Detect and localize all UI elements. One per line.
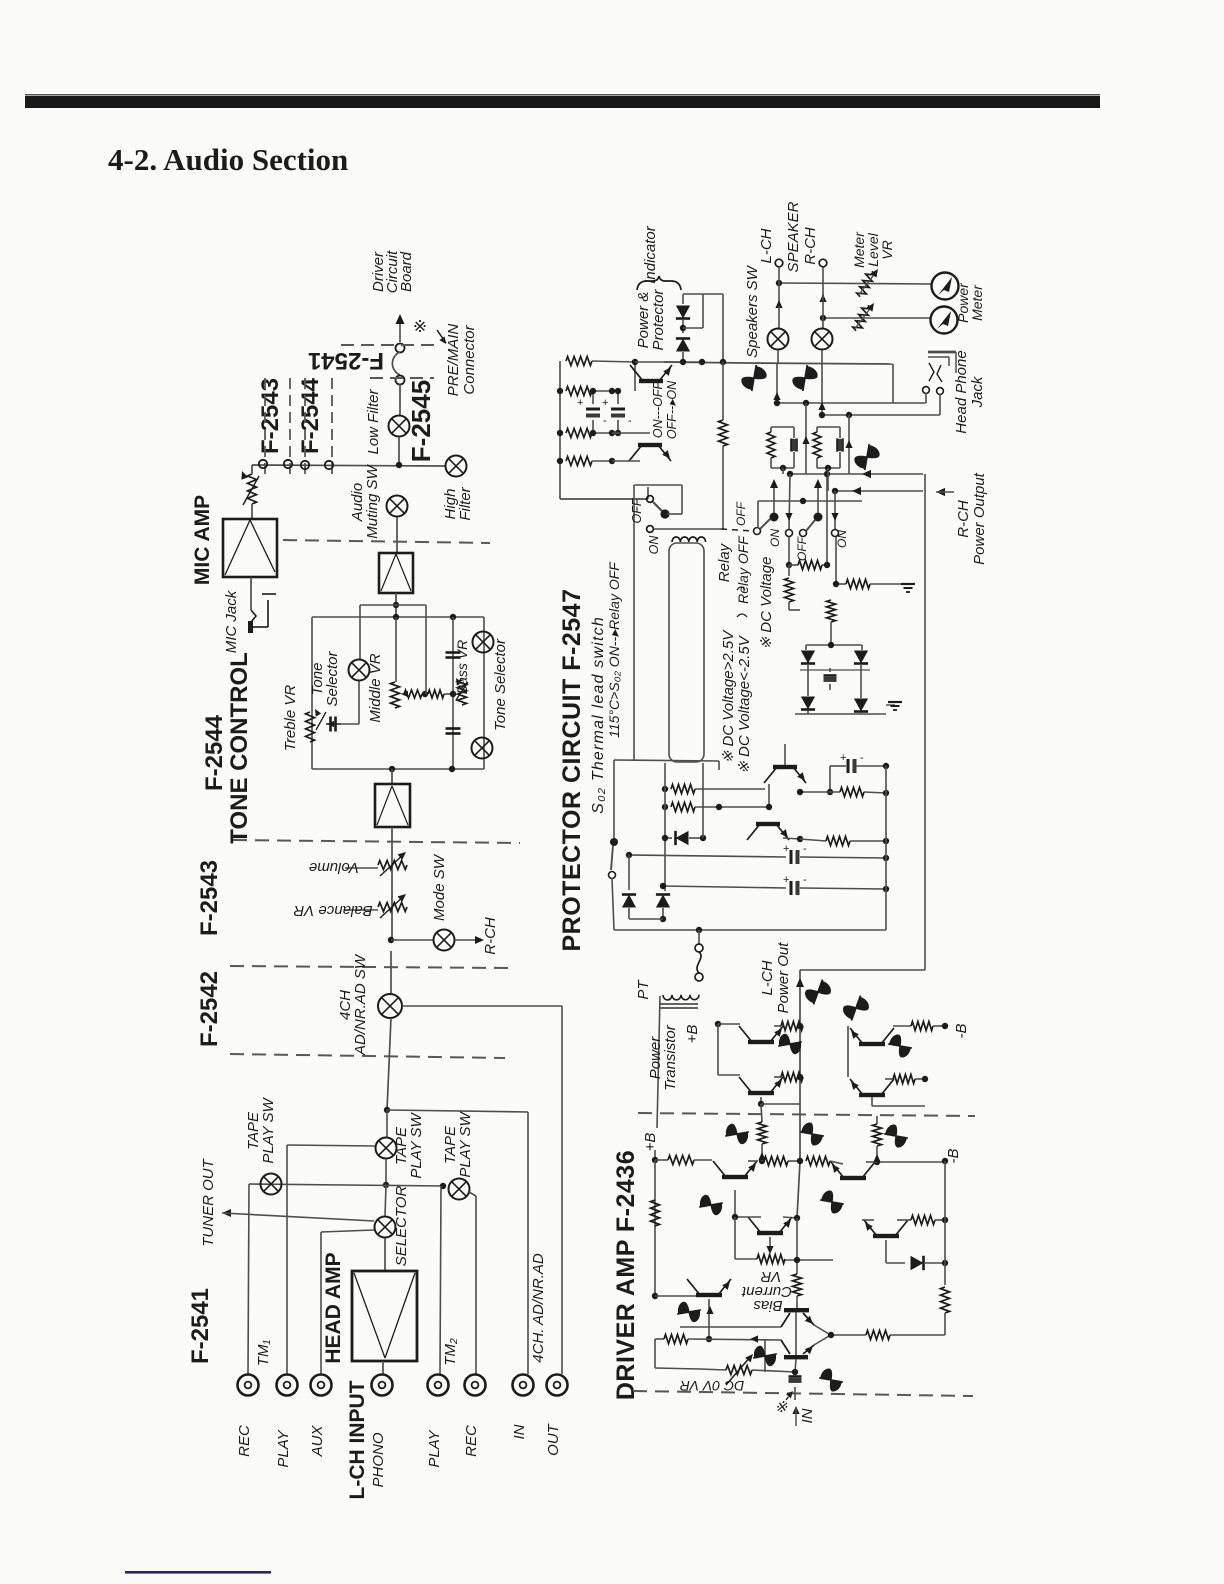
vert 877 resistor [873, 1116, 882, 1162]
wire mic amp to jack [250, 577, 252, 610]
label sw4 ON [835, 530, 849, 548]
svg-text:ON: ON [835, 530, 849, 548]
switch mode SW [434, 930, 455, 951]
input jack PHONO 4 [372, 1375, 393, 1396]
volume VR [378, 852, 407, 876]
power meter 1 [932, 273, 959, 300]
node mid chain [422, 691, 428, 697]
wire to PT [698, 930, 700, 944]
tone bottom rail [312, 768, 484, 770]
P1 emitter resistor [781, 1022, 803, 1031]
label jack IN [511, 1424, 528, 1439]
svg-text:Low Filter: Low Filter [365, 388, 382, 454]
fuse Q2b [882, 1123, 909, 1149]
label Mode SW [431, 853, 448, 921]
svg-text:MIC Jack: MIC Jack [223, 589, 240, 653]
mode SW arrow out [455, 936, 484, 944]
wire to mode SW [391, 939, 433, 941]
svg-text:PLAY SW: PLAY SW [408, 1112, 425, 1179]
protector rail 886 [660, 874, 889, 895]
fuse Q2 [798, 1121, 825, 1147]
R-CH top rail [924, 970, 926, 1079]
svg-text:OUT: OUT [545, 1422, 562, 1456]
page top rule bar [25, 94, 1100, 108]
label +B top [684, 1025, 701, 1044]
wire muting to block [396, 517, 398, 553]
wire sw1 up [757, 501, 759, 528]
svg-text:-: - [803, 843, 807, 855]
node tape top [384, 1107, 390, 1113]
svg-text:F-2541: F-2541 [308, 347, 384, 374]
svg-text:Filter: Filter [457, 486, 474, 520]
svg-text:REC: REC [236, 1425, 253, 1457]
wire PLAY drop [286, 1145, 288, 1374]
diode grid right top [854, 645, 868, 670]
fuse P1 [776, 1031, 803, 1057]
diode Q4 [886, 1240, 948, 1270]
diode grid rail top [806, 642, 862, 648]
svg-text:-: - [803, 874, 807, 886]
label Power Meter [955, 282, 985, 323]
label sw1 OFF [734, 501, 748, 526]
label R-CH [802, 227, 819, 265]
svg-text:F-2541: F-2541 [187, 1288, 214, 1364]
label jack REC [463, 1425, 480, 1457]
label Bass VR [454, 640, 470, 694]
protector ecap top right [827, 752, 889, 795]
wire tone inner top [360, 604, 426, 606]
svg-text:VR: VR [760, 1268, 781, 1285]
label L-CH INPUT [346, 1380, 369, 1499]
diode grid bottom rail [795, 713, 886, 715]
svg-text:DC 0V VR: DC 0V VR [680, 1378, 745, 1394]
wire TM2L drop [440, 1186, 441, 1374]
label relay OFF [630, 497, 644, 523]
balance lead [345, 909, 378, 911]
protector diode left [662, 831, 706, 845]
label DC 0V VR [680, 1378, 745, 1394]
svg-text:PHONO: PHONO [370, 1432, 387, 1487]
svg-text:+: + [840, 752, 846, 764]
treble cap [331, 717, 336, 732]
label Power Protector Indicator [635, 225, 667, 350]
svg-text:L-CH INPUT: L-CH INPUT [346, 1380, 369, 1499]
wire selector up [385, 1186, 386, 1216]
diode grid left bot [801, 697, 815, 715]
indicator branch [683, 294, 723, 362]
label L-CH PowerOut [759, 942, 792, 1014]
speaker terminal L [775, 259, 783, 267]
label F-2544 vert [201, 714, 228, 791]
node bass mid [450, 691, 456, 697]
power meter 2 [931, 307, 958, 334]
svg-text:ON: ON [647, 535, 661, 555]
svg-text:TUNER OUT: TUNER OUT [200, 1157, 217, 1246]
indicator diode upper [676, 294, 690, 333]
input jack PLAY 2 [277, 1375, 298, 1396]
+B rail down [651, 1160, 660, 1296]
label jack PLAY [426, 1429, 443, 1467]
transistor protector upper [630, 365, 672, 383]
input jack REC 6 [465, 1375, 486, 1396]
wire block to node [395, 593, 397, 617]
ladder resistor 1 [566, 357, 635, 366]
fuse Q1 [723, 1121, 750, 1147]
svg-text:PT: PT [635, 979, 652, 1000]
input jack AUX 3 [311, 1375, 332, 1396]
svg-text:F-2545: F-2545 [406, 380, 436, 462]
label DC Voltage note [758, 557, 775, 650]
snubber R [813, 427, 843, 491]
label jack PHONO [370, 1432, 387, 1487]
svg-text:Relay OFF: Relay OFF [735, 535, 751, 604]
relay brace2 [737, 587, 745, 590]
svg-text:Middle VR: Middle VR [367, 653, 384, 722]
label F-2541 board [308, 347, 384, 374]
node mode [388, 937, 394, 943]
label Power Transistor [647, 1024, 679, 1091]
transistor Q1 [712, 1160, 757, 1179]
tone mid-right drop [425, 605, 427, 694]
label DC voltage cond 1 [720, 629, 737, 763]
label F-2543 vert2 [196, 860, 223, 936]
svg-text:F-2542: F-2542 [196, 971, 223, 1047]
switch low filter [389, 416, 410, 437]
dashed border F-2543 left [264, 378, 266, 480]
fuse powerout 2 [840, 991, 872, 1024]
svg-text:※ DC Voltage: ※ DC Voltage [758, 557, 775, 650]
dashed separator F-2542/F-2541 [230, 1054, 505, 1058]
mid resistor chain a [404, 690, 422, 698]
label jack REC [236, 1425, 253, 1457]
bass rail [452, 617, 454, 769]
dashed separator F-2545/F-2544 [283, 540, 490, 543]
label DRIVER AMP F-2436 [612, 1150, 640, 1400]
node on bus [396, 462, 402, 468]
svg-text:ON---OFF: ON---OFF [651, 381, 665, 439]
relay switch return [634, 485, 682, 760]
wire tape1 down [385, 1159, 387, 1185]
rail y415 [819, 412, 940, 418]
svg-text:4CH. AD/NR.AD: 4CH. AD/NR.AD [530, 1253, 547, 1363]
thermal vert top [613, 760, 615, 838]
P4 wires [872, 1079, 925, 1106]
relay body [669, 543, 704, 762]
snubber L [767, 427, 797, 474]
transistor Q3 [748, 1217, 792, 1235]
cond brace [737, 614, 747, 617]
wire head amp to phono [382, 1361, 384, 1374]
protector resistor right mid [800, 837, 889, 846]
tuner out arrow [222, 1209, 374, 1221]
fuse R [791, 363, 819, 393]
block buffer F-2544 [379, 553, 413, 593]
label TAPE PLAY SW 1 [245, 1097, 277, 1164]
svg-text:AUX: AUX [309, 1425, 326, 1458]
node bus 702 [699, 359, 705, 365]
switch tape play 1 [376, 1138, 397, 1159]
label Head Phone Jack [953, 350, 986, 433]
bottom resistor R [831, 1331, 945, 1340]
meter level VR 1 [856, 269, 878, 299]
svg-text:S₀₂ Thermal lead switch: S₀₂ Thermal lead switch [590, 616, 607, 814]
svg-text:F-2544: F-2544 [201, 714, 228, 791]
middle VR [391, 682, 400, 708]
headphone contact circles [923, 387, 944, 395]
resistor -B vert [941, 1263, 950, 1335]
block buffer F-2543 [375, 784, 410, 827]
balance VR [378, 894, 407, 918]
dashed border F-2541 b [370, 377, 434, 379]
wire block2 down [391, 827, 393, 940]
meter rail 1 [776, 280, 931, 286]
svg-text:PROTECTOR CIRCUIT F-2547: PROTECTOR CIRCUIT F-2547 [558, 589, 586, 952]
label F-2543 board [257, 378, 284, 454]
wire L below bus [773, 364, 780, 403]
asterisk mark [413, 317, 427, 336]
wire sw4 vert [831, 491, 838, 529]
svg-text:R-CH: R-CH [482, 917, 499, 955]
diode grid cap [824, 668, 837, 690]
-B rail right [944, 1161, 946, 1263]
node diode mid [680, 325, 686, 331]
input cap [789, 1359, 802, 1400]
label F-2542 vert [196, 971, 223, 1047]
power transistor P3 [848, 1026, 894, 1046]
label Driver Circuit Board [370, 250, 415, 293]
label Tone Selector left [309, 650, 341, 706]
node bus1185 right [440, 1183, 446, 1189]
svg-text:+: + [602, 397, 608, 409]
wire REC drop [248, 1184, 249, 1374]
input jack REC 1 [238, 1375, 259, 1396]
tone left rail [311, 617, 313, 769]
power transistor P2 [739, 1054, 783, 1095]
tone right rail [483, 617, 485, 769]
svg-text:Selector: Selector [324, 650, 341, 706]
dashed border F-2543 right [289, 378, 291, 480]
label TM2 [442, 1338, 459, 1366]
mid chain arrow [401, 691, 408, 697]
svg-text:SELECTOR: SELECTOR [393, 1186, 410, 1267]
bass cap bottom [446, 729, 461, 734]
connector circle bus 1 [259, 460, 267, 468]
Q1 collector chain [748, 1157, 843, 1166]
label PT [635, 979, 652, 1000]
label F-2545 board [406, 380, 436, 462]
node tone bottom [389, 766, 395, 772]
R-CH mid vert [924, 1106, 926, 1161]
switch audio muting [387, 496, 408, 517]
transistor Q2 [831, 1162, 875, 1180]
node emitter join [828, 1332, 834, 1338]
svg-text:IN: IN [511, 1424, 528, 1439]
svg-text:Speakers SW: Speakers SW [744, 264, 761, 358]
svg-text:Muting SW: Muting SW [364, 463, 381, 538]
protector q2 wires [703, 807, 803, 842]
switch tuner tape [261, 1174, 282, 1195]
wire diode grid up [808, 670, 861, 698]
relay box bottom vert [718, 761, 720, 770]
label jack OUT [545, 1422, 562, 1456]
ladder resistor 3 [566, 429, 612, 438]
P2 wires [740, 1073, 803, 1082]
fuse mid [853, 442, 881, 472]
bus 1185 [249, 1184, 443, 1186]
svg-text:Board: Board [398, 251, 415, 292]
P4 resistor [885, 1075, 928, 1084]
DC 0V VR [655, 1339, 795, 1385]
ladder node 2 [557, 388, 615, 394]
label -B top [953, 1024, 970, 1039]
label Balance VR [293, 902, 372, 919]
connector circle top [396, 344, 405, 353]
wire tone selector to cap [358, 681, 360, 724]
svg-text:OFF: OFF [795, 536, 809, 561]
switch row sw2 [786, 530, 793, 537]
dashed driver bottom border [633, 1391, 973, 1396]
protector diode D2 [656, 886, 670, 922]
label Relay OFF right [735, 535, 751, 604]
wire to driver board with arrow [396, 314, 405, 342]
wire ladder bottom to q [560, 461, 648, 499]
protector diode D1 [622, 855, 636, 919]
protector rail 789 [662, 785, 768, 794]
fuse left vert [751, 1340, 778, 1372]
label jack AUX [309, 1425, 326, 1458]
rail y584 to gnd [833, 580, 915, 593]
label 4CH AD/NR.AD SW [337, 953, 369, 1056]
svg-text:PLAY: PLAY [275, 1429, 292, 1467]
label TM1 [255, 1340, 272, 1367]
label Meter Level VR [851, 231, 895, 268]
svg-text:+: + [783, 843, 789, 855]
transistor bias B [781, 1336, 829, 1359]
label IN arrow [792, 1406, 816, 1426]
power transistor P1 [697, 1021, 783, 1044]
block head amp [352, 1271, 417, 1361]
protector bottom rail [614, 927, 886, 933]
PT coil top circle [695, 944, 703, 952]
wire 4ch down to OUT [561, 1006, 563, 1374]
rail to -B [874, 1158, 948, 1165]
P3 resistor [893, 1022, 948, 1031]
resistor dcv vert [785, 565, 801, 610]
PT core bars [659, 1004, 698, 1008]
label -B mid [945, 1149, 962, 1164]
protector rail 857 [626, 843, 889, 864]
relay switch [647, 496, 670, 519]
headphone contacts [929, 363, 942, 382]
thermal circle down [612, 878, 614, 930]
P1 base wire [718, 1024, 740, 1075]
svg-text:R-CH: R-CH [802, 227, 819, 265]
protector q1 wires [766, 744, 785, 810]
protector rail 806 [662, 803, 768, 812]
input jack IN 7 [513, 1375, 534, 1396]
wire ladder mid [612, 432, 650, 434]
R-CH out vert [924, 474, 926, 970]
label MIC AMP [191, 495, 214, 585]
svg-text:DRIVER AMP F-2436: DRIVER AMP F-2436 [612, 1150, 640, 1400]
svg-text:Power Output: Power Output [971, 472, 988, 565]
svg-text:-: - [860, 752, 864, 764]
svg-text:4-2. Audio Section: 4-2. Audio Section [108, 142, 348, 177]
headphone wires [926, 393, 940, 415]
svg-text:PLAY SW: PLAY SW [260, 1097, 277, 1164]
protector resistor right top [797, 788, 889, 797]
connector circle bus 2 [284, 460, 292, 468]
label F-2541 vert [187, 1288, 214, 1364]
label TAPE PLAY SW 2 [393, 1112, 425, 1179]
treble VR [306, 709, 327, 742]
wire sw1 dot up arrow [770, 479, 778, 513]
label +B mid [642, 1133, 659, 1152]
svg-text:AD/NR.AD SW: AD/NR.AD SW [352, 953, 369, 1056]
meter level VR 2 [852, 303, 874, 333]
switch speakers R [812, 329, 833, 350]
wire tape right [387, 1110, 528, 1112]
label Volume [309, 859, 359, 876]
label TUNER OUT [200, 1157, 217, 1246]
transistor Q5 [652, 1279, 731, 1299]
svg-text:TM₁: TM₁ [255, 1340, 272, 1367]
protector vert 663 ext [662, 919, 664, 930]
switch speakers L [768, 329, 789, 350]
node bus1185 [383, 1182, 389, 1188]
svg-text:Treble VR: Treble VR [282, 685, 299, 752]
Q3 emitter resistor [735, 1217, 833, 1264]
svg-text:TONE CONTROL: TONE CONTROL [226, 652, 253, 844]
label Relay [716, 542, 733, 582]
label HEAD AMP [322, 1252, 345, 1363]
label asterisk in [775, 1391, 793, 1416]
switch 4CH AD/NR.AD SW [378, 994, 402, 1018]
svg-text:F-2543: F-2543 [196, 860, 223, 936]
wire L sw to bus [777, 350, 779, 363]
node tone right [450, 614, 456, 620]
meter rail 2 [820, 315, 930, 321]
wire mid chain right [444, 693, 453, 695]
pre/main connector arc [392, 352, 400, 375]
svg-text:Protector: Protector [650, 289, 667, 351]
wire aux [321, 1230, 374, 1374]
switch row sw1 [754, 513, 779, 535]
label F-2544 board [297, 377, 324, 454]
resistor 831 vert [827, 596, 836, 645]
svg-text:-: - [603, 415, 607, 427]
rail 1339 resistor [655, 1335, 781, 1344]
treble arrow lead [326, 721, 341, 727]
indicator brace [637, 276, 681, 290]
rail y491 [832, 487, 923, 495]
label 115C condition [606, 561, 622, 738]
switch high filter [446, 456, 467, 477]
svg-text:Head Phone: Head Phone [953, 350, 970, 433]
svg-text:R-CH: R-CH [955, 500, 972, 538]
fuse L [740, 363, 768, 393]
wire ladder q2 base [632, 359, 638, 391]
Q3 wires [732, 1190, 800, 1221]
svg-text:TM₂: TM₂ [442, 1338, 459, 1366]
label Treble VR [282, 685, 299, 752]
label 4CH AD/NR.AD bottom [530, 1253, 547, 1363]
svg-text:※: ※ [413, 317, 427, 336]
resistor +B to Q1 [655, 1156, 712, 1165]
bus right turn [892, 364, 894, 403]
wire y491 ext [923, 490, 925, 492]
ladder resistor 2 [566, 387, 612, 396]
